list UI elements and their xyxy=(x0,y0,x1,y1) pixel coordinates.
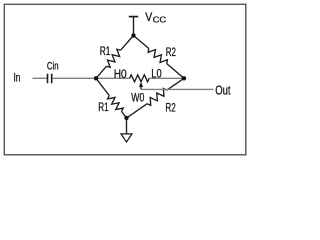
svg-text:CC: CC xyxy=(153,15,167,25)
wire wiper to Out xyxy=(141,88,214,90)
wire left node to potentiometer xyxy=(96,77,130,79)
svg-text:Cin: Cin xyxy=(47,61,59,73)
resistor R2 bottom-right xyxy=(127,78,185,118)
svg-text:R2: R2 xyxy=(165,101,175,115)
svg-text:R1: R1 xyxy=(100,44,111,58)
resistor R1 bottom-left xyxy=(96,78,127,118)
potentiometer element H0-L0 xyxy=(130,75,150,82)
svg-text:L0: L0 xyxy=(151,67,161,81)
wire potentiometer to right node xyxy=(149,77,184,79)
junction top node xyxy=(131,33,135,37)
svg-text:R1: R1 xyxy=(98,100,108,114)
wire bottom node to ground xyxy=(126,118,128,134)
capacitor Cin xyxy=(48,74,52,84)
wire Cin to left node xyxy=(52,77,96,79)
border frame xyxy=(4,4,246,155)
junction left node xyxy=(94,76,98,80)
svg-text:Out: Out xyxy=(215,83,231,98)
resistor R1 top-left xyxy=(96,36,134,79)
wiper W0 arrow xyxy=(139,82,143,90)
svg-text:In: In xyxy=(14,71,21,85)
wire In to Cin xyxy=(33,77,48,79)
power VCC symbol xyxy=(129,17,138,36)
svg-text:R2: R2 xyxy=(166,45,176,59)
svg-text:H0: H0 xyxy=(114,67,127,81)
svg-text:W0: W0 xyxy=(131,91,144,105)
junction right node xyxy=(182,76,186,80)
resistor R2 top-right xyxy=(134,36,185,79)
ground symbol xyxy=(121,134,132,142)
svg-text:V: V xyxy=(145,12,152,24)
junction bottom node xyxy=(124,116,128,120)
